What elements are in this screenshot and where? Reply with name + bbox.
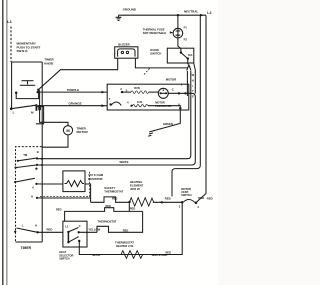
svg-text:A: A xyxy=(32,186,34,190)
node below contact 2 xyxy=(35,168,37,170)
wire green xyxy=(154,108,181,131)
node 6 xyxy=(179,107,181,109)
svg-text:TIMER: TIMER xyxy=(21,246,32,250)
wire red to heat selector xyxy=(38,231,63,233)
svg-text:L1: L1 xyxy=(65,224,69,228)
wire door switch down xyxy=(187,59,189,65)
wire orange xyxy=(38,105,108,107)
terminal M xyxy=(35,104,37,111)
svg-text:SWITCH: SWITCH xyxy=(150,51,161,55)
wire yellow / cycling thermostat row xyxy=(79,231,97,233)
timer bus (right edge of knob box continuing down) xyxy=(41,62,43,242)
stray dashed lead xyxy=(144,68,151,75)
connector block at M xyxy=(36,107,44,124)
wire harness left xyxy=(186,71,188,96)
svg-text:RED: RED xyxy=(47,228,53,232)
wire white (upper) xyxy=(37,71,191,159)
door switch xyxy=(167,48,194,63)
svg-text:L2: L2 xyxy=(207,11,211,15)
label momentary push to start xyxy=(17,42,41,54)
svg-text:WHITE-RED: WHITE-RED xyxy=(152,253,168,257)
wire L1 lead (dashed) xyxy=(10,27,12,63)
node: push switch left contact xyxy=(15,92,18,95)
svg-text:PURPLE: PURPLE xyxy=(67,88,79,92)
left page border xyxy=(3,0,7,285)
svg-text:SWITCH: SWITCH xyxy=(181,193,191,197)
push-to-start switch S1 xyxy=(22,80,34,82)
wire purple xyxy=(37,91,39,93)
svg-text:4050 W: 4050 W xyxy=(130,187,140,191)
buzzer xyxy=(115,47,138,58)
wire red: switch 3 down to heater return xyxy=(79,202,182,254)
ground symbol xyxy=(116,15,122,20)
svg-text:MOTOR: MOTOR xyxy=(166,78,176,82)
svg-text:H: H xyxy=(35,224,37,228)
timer motor M2 xyxy=(63,126,72,135)
wire neutral xyxy=(119,14,207,16)
svg-text:HEATER 2 W.: HEATER 2 W. xyxy=(116,244,134,248)
ground (chassis) xyxy=(148,131,154,137)
svg-text:MOTOR: MOTOR xyxy=(155,100,165,104)
vertical label white xyxy=(192,73,195,98)
dashed sub-enclosure (resistor bay) xyxy=(40,171,90,197)
svg-text:RED: RED xyxy=(123,228,129,232)
svg-text:K: K xyxy=(31,194,33,198)
thermostat heater E2 xyxy=(115,241,134,248)
svg-text:RED: RED xyxy=(106,204,112,208)
label timer knob xyxy=(44,58,54,66)
svg-text:L: L xyxy=(22,224,24,228)
svg-text:RESISTOR: RESISTOR xyxy=(88,177,102,181)
label timer motor xyxy=(77,126,89,134)
svg-text:KNOB: KNOB xyxy=(44,61,54,65)
svg-text:SW.N.O.: SW.N.O. xyxy=(17,49,29,53)
switch blade L-M xyxy=(11,105,36,109)
svg-text:B: B xyxy=(37,150,39,154)
svg-text:WHITE: WHITE xyxy=(120,160,129,164)
node L (timer) xyxy=(10,107,13,110)
wire red row (resistor return) xyxy=(65,208,143,222)
svg-text:BLUE: BLUE xyxy=(93,253,101,257)
svg-text:RED: RED xyxy=(207,197,213,201)
svg-text:RED: RED xyxy=(165,197,171,201)
svg-text:RUN: RUN xyxy=(134,86,140,90)
wire resistor to heater row xyxy=(85,184,91,202)
svg-text:GROUND: GROUND xyxy=(123,7,137,11)
timer knob box xyxy=(12,62,43,109)
svg-text:ORANGE: ORANGE xyxy=(69,101,82,105)
svg-text:MOTOR: MOTOR xyxy=(77,130,89,134)
svg-text:AUX: AUX xyxy=(137,100,143,104)
resistor R1 572k xyxy=(63,171,85,192)
timer contact K xyxy=(36,197,38,199)
safety thermostat xyxy=(104,186,123,194)
svg-text:N.O.: N.O. xyxy=(188,54,193,57)
svg-text:RED: RED xyxy=(112,197,118,201)
arrow connector xyxy=(187,65,191,71)
svg-text:SWITCH: SWITCH xyxy=(59,257,69,261)
wire to buzzer (from start switch) xyxy=(39,58,117,89)
timer dashed enclosure xyxy=(16,147,42,242)
heating element E1 xyxy=(130,180,144,191)
timer contact 2 xyxy=(15,167,17,169)
svg-text:GREEN: GREEN xyxy=(163,122,173,126)
thermal fuse F1-F2 xyxy=(177,14,179,16)
motor centrifugal switch xyxy=(181,187,191,197)
wire white (lower) xyxy=(37,93,195,165)
motor box xyxy=(107,84,189,110)
svg-text:C: C xyxy=(172,87,174,91)
wire M contact to timer motor xyxy=(40,91,68,126)
wire to safety thermostat xyxy=(37,197,91,199)
wire to resistor xyxy=(36,183,63,185)
motor protector xyxy=(158,88,168,98)
wire timer motor return xyxy=(42,135,68,147)
svg-text:E: E xyxy=(192,94,194,98)
svg-text:RED: RED xyxy=(56,207,62,211)
svg-text:L1: L1 xyxy=(7,19,12,24)
wire protector to C xyxy=(168,92,189,94)
svg-text:THERMOSTAT: THERMOSTAT xyxy=(104,189,123,193)
svg-text:THERMOSTAT: THERMOSTAT xyxy=(98,220,117,224)
arrow to fuse xyxy=(170,31,173,33)
wire L2 bus xyxy=(197,15,206,202)
svg-text:C: C xyxy=(79,224,81,228)
svg-text:F1: F1 xyxy=(184,26,188,30)
arrow orange xyxy=(102,104,106,107)
svg-text:TM: TM xyxy=(23,153,28,157)
timer contact A xyxy=(14,181,16,183)
svg-text:H: H xyxy=(192,78,194,82)
arrow neutral xyxy=(200,14,204,17)
wire neutral branch down right side xyxy=(172,15,200,196)
heat selector switch xyxy=(63,221,87,247)
wire buzzer to door switch wire xyxy=(135,58,187,68)
arrow purple xyxy=(102,91,106,94)
svg-text:BUZZER: BUZZER xyxy=(118,42,129,46)
svg-text:NEUTRAL: NEUTRAL xyxy=(184,10,198,14)
svg-text:F2: F2 xyxy=(184,37,188,41)
node: push switch right contact xyxy=(37,89,40,92)
svg-text:YELLOW: YELLOW xyxy=(88,227,100,231)
svg-text:NOT RESETABLE: NOT RESETABLE xyxy=(143,31,167,35)
svg-text:RED: RED xyxy=(130,206,136,210)
svg-text:L: L xyxy=(13,110,15,114)
